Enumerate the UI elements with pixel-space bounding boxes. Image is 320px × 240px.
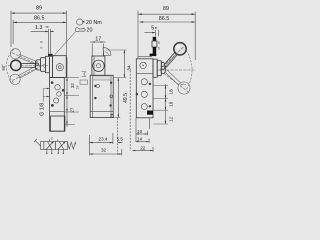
- dim 89 left: [11, 6, 67, 77]
- plate E inner verticals: [92, 75, 94, 117]
- wrench icon 20: [75, 28, 92, 34]
- plate E: [90, 75, 113, 117]
- centerline horizontal: [8, 64, 48, 66]
- right lever ghost: [165, 69, 191, 94]
- svg-text:50°: 50°: [1, 64, 6, 71]
- svg-text:49.5: 49.5: [123, 93, 129, 103]
- boss circle: [56, 64, 63, 71]
- dim 89 right: [138, 6, 195, 60]
- plate F divider: [136, 73, 153, 75]
- hub circle top: [93, 60, 104, 71]
- right bottom dims 10 14 22: [130, 71, 153, 153]
- dim 86.5 left: [13, 15, 66, 44]
- tiny port marks: [46, 137, 64, 154]
- svg-text:1.3: 1.3: [35, 25, 43, 31]
- leader to body: [53, 32, 75, 57]
- centerline ghost down: [12, 64, 45, 81]
- svg-text:6: 6: [39, 46, 43, 48]
- 5/2 valve symbol: [34, 139, 76, 153]
- svg-text:20: 20: [87, 28, 93, 34]
- centerline ghost up: [12, 53, 45, 68]
- dim 32/18/27 chain: [64, 58, 79, 128]
- swing lobe: [103, 48, 111, 56]
- torque icon 20 Nm: [77, 19, 103, 26]
- body strip A: [49, 56, 52, 77]
- dim 5: [144, 25, 158, 36]
- plate F top hole: [140, 62, 146, 68]
- dim 1.3 left: [31, 25, 54, 54]
- stem black bottom: [153, 47, 157, 56]
- svg-text:17: 17: [95, 36, 101, 42]
- G1/8 leaders: [43, 89, 49, 102]
- svg-text:34: 34: [126, 65, 131, 71]
- stem collar: [152, 41, 157, 47]
- solid lever shaft: [21, 63, 36, 67]
- port holes: [51, 81, 65, 107]
- svg-text:10: 10: [137, 129, 143, 134]
- svg-text:86.5: 86.5: [159, 16, 170, 22]
- right dim chain 18 18 12: [154, 84, 174, 124]
- plate C white foot: [51, 116, 65, 131]
- body rect B: [53, 56, 67, 78]
- svg-text:5: 5: [151, 25, 154, 31]
- plate E internal line: [90, 111, 113, 113]
- svg-text:2: 2: [51, 137, 53, 141]
- svg-text:18: 18: [169, 101, 174, 107]
- svg-text:20 Nm: 20 Nm: [86, 20, 102, 26]
- svg-text:8: 8: [39, 41, 43, 43]
- middle bottom dims: [90, 118, 124, 156]
- right centerlines: [158, 69, 196, 71]
- hub clevis: [35, 56, 49, 72]
- svg-text:23.4: 23.4: [99, 137, 108, 142]
- swing arc dashed: [6, 50, 14, 84]
- body D top view: [92, 56, 105, 75]
- svg-text:5.5: 5.5: [117, 137, 124, 142]
- plate F front view: [136, 59, 153, 118]
- svg-text:12: 12: [169, 116, 174, 122]
- tiny detail mark: [80, 72, 88, 85]
- svg-text:89: 89: [36, 6, 42, 12]
- svg-text:14: 14: [137, 136, 143, 141]
- svg-text:6: 6: [158, 46, 160, 50]
- stem black top: [153, 37, 157, 41]
- dim 34: [106, 50, 131, 78]
- ghost lever down: [10, 66, 38, 85]
- plate F black block: [147, 111, 153, 115]
- plate E top band: [93, 76, 111, 80]
- dim 17 middle: [90, 36, 106, 56]
- plate F ports: [136, 79, 151, 110]
- svg-text:22: 22: [140, 145, 146, 150]
- plate E notch: [111, 114, 113, 117]
- dim 49.5: [113, 78, 129, 118]
- svg-text:18: 18: [75, 86, 79, 90]
- right hub: [153, 59, 166, 77]
- svg-text:32: 32: [101, 148, 107, 153]
- svg-text:18: 18: [169, 89, 174, 95]
- svg-text:86.5: 86.5: [34, 15, 45, 21]
- dim 86.5 right: [140, 16, 196, 23]
- right lever solid: [164, 43, 186, 68]
- ghost lever up: [10, 49, 38, 65]
- plate C: [50, 78, 65, 132]
- right swing arc: [186, 51, 192, 90]
- svg-text:89: 89: [163, 6, 169, 12]
- solid lever ball: [11, 60, 21, 70]
- plate E holes: [94, 82, 113, 107]
- svg-text:27: 27: [70, 107, 75, 113]
- stem cap black: [48, 54, 53, 56]
- plate C internal line: [50, 111, 65, 113]
- svg-text:8: 8: [158, 41, 160, 45]
- svg-text:G 1/8: G 1/8: [39, 103, 45, 116]
